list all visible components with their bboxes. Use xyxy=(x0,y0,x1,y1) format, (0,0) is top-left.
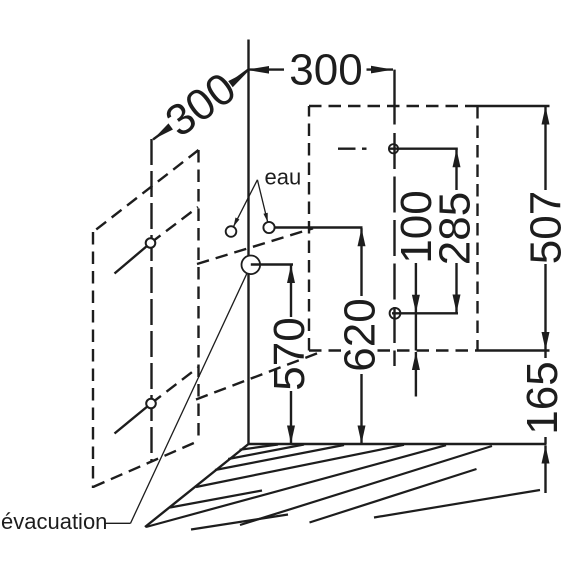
svg-text:300: 300 xyxy=(289,45,362,94)
svg-text:570: 570 xyxy=(265,317,314,390)
svg-text:620: 620 xyxy=(335,298,384,371)
svg-text:évacuation: évacuation xyxy=(1,509,107,534)
svg-text:300: 300 xyxy=(157,63,245,146)
svg-text:eau: eau xyxy=(265,165,302,190)
svg-text:165: 165 xyxy=(518,361,567,434)
svg-text:285: 285 xyxy=(431,192,480,265)
svg-text:507: 507 xyxy=(522,191,568,264)
